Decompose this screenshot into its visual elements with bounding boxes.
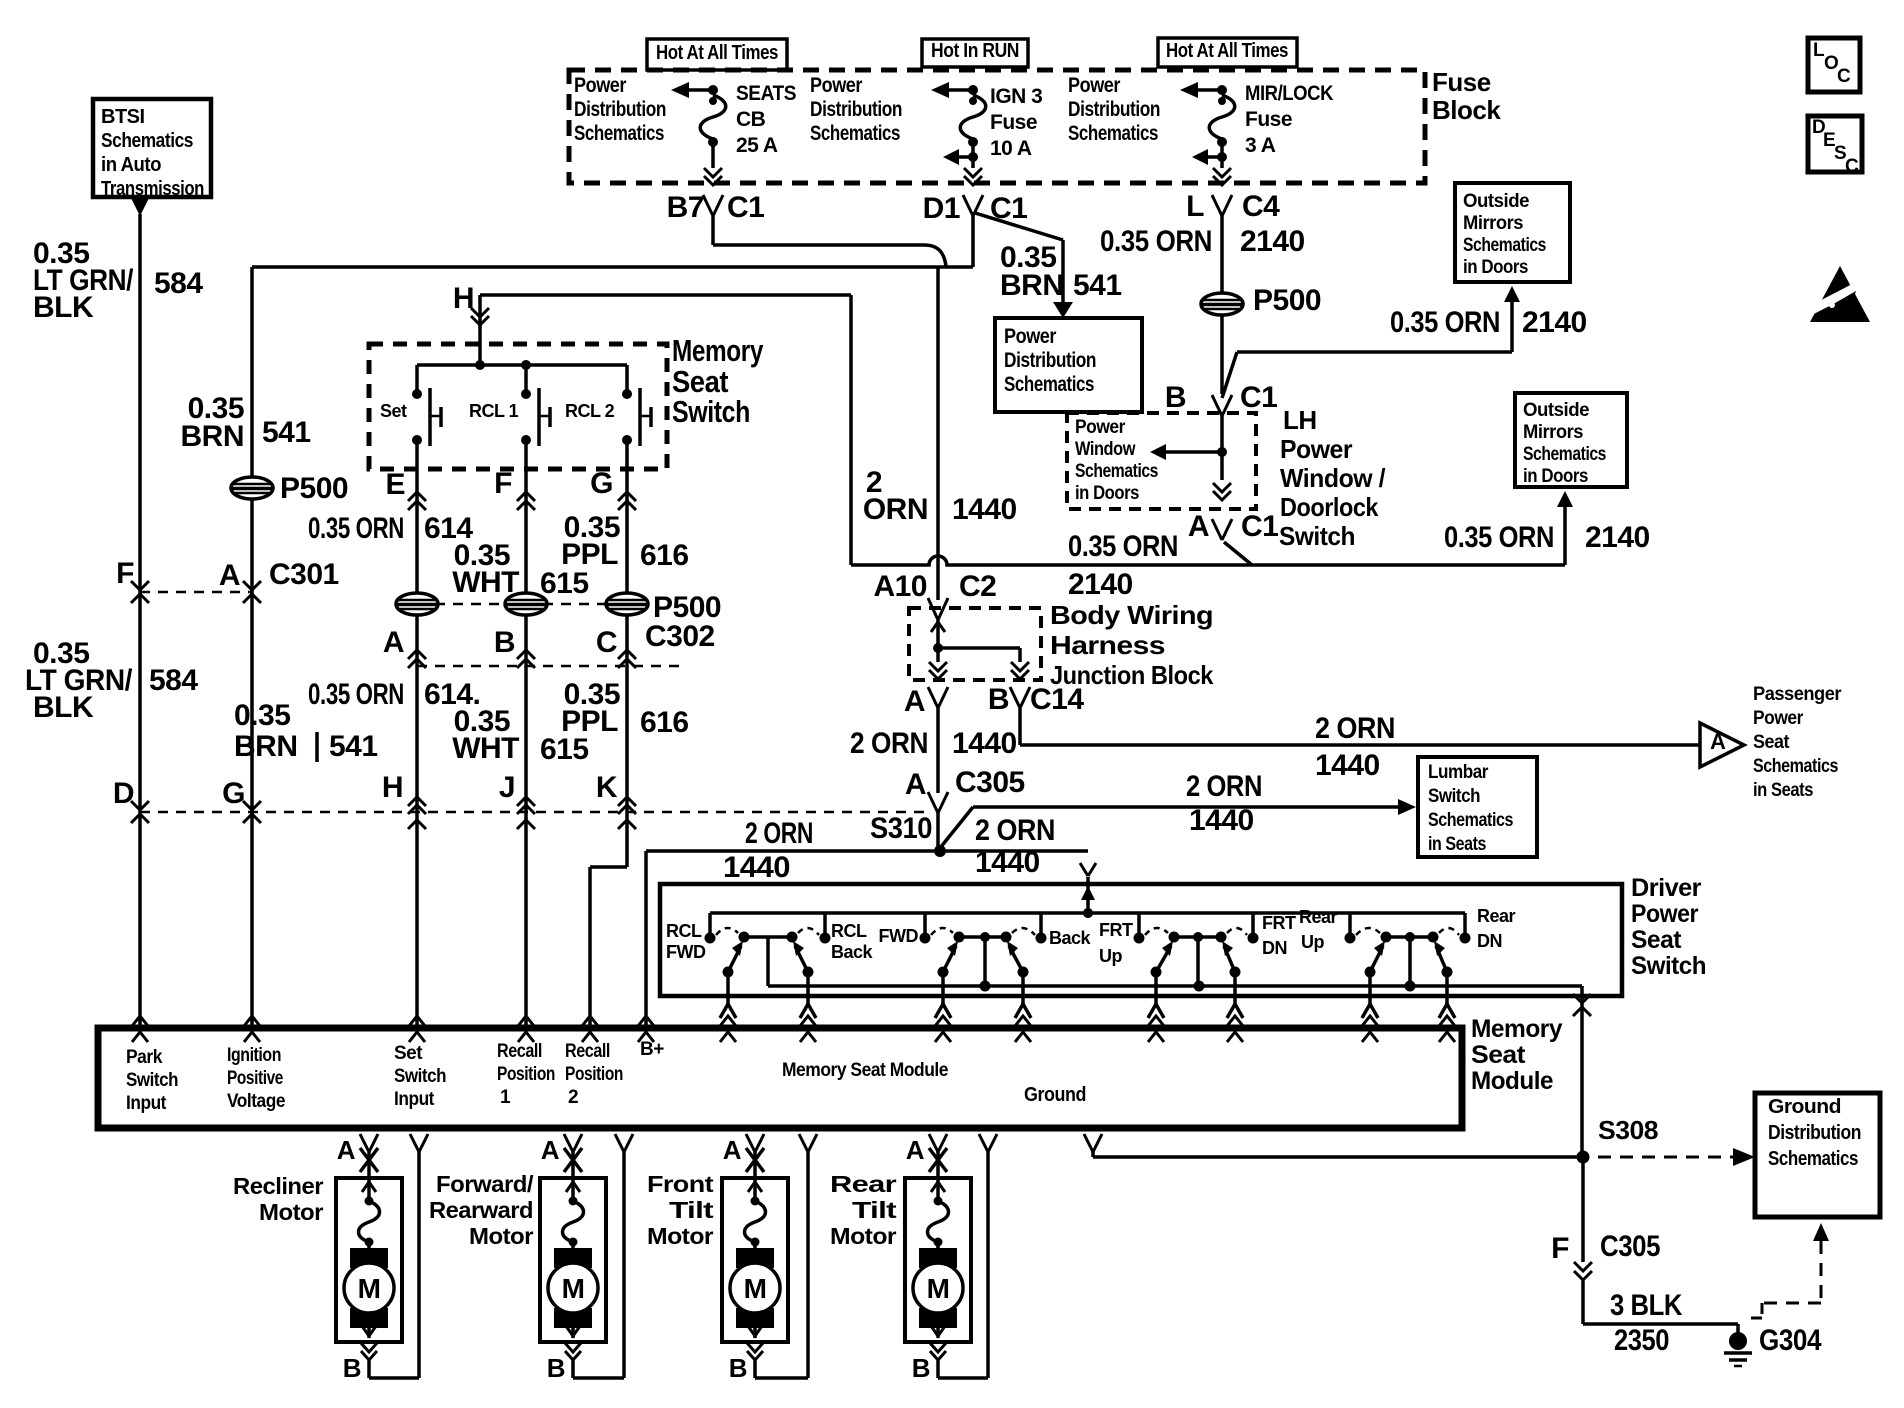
svg-text:G: G [222,777,245,810]
svg-text:J: J [499,771,515,804]
svg-text:in Doors: in Doors [1075,483,1139,504]
svg-text:A: A [1710,729,1726,754]
svg-text:ORN: ORN [863,493,928,526]
svg-text:Recall: Recall [565,1041,610,1062]
svg-text:2: 2 [568,1087,578,1108]
svg-text:E: E [385,468,405,501]
svg-text:A: A [337,1135,356,1165]
svg-text:Schematics: Schematics [1004,373,1094,396]
svg-text:Back: Back [831,942,874,962]
svg-text:A: A [219,559,240,592]
svg-text:2 ORN: 2 ORN [745,817,813,850]
svg-text:541: 541 [329,730,378,763]
svg-text:FRT: FRT [1262,913,1296,933]
svg-text:1440: 1440 [1315,749,1380,782]
svg-text:Outside: Outside [1523,400,1589,421]
svg-text:Mirrors: Mirrors [1463,213,1523,234]
svg-text:Motor: Motor [830,1223,897,1249]
svg-text:1440: 1440 [952,493,1017,526]
svg-text:A: A [383,626,404,659]
svg-text:Power: Power [1068,74,1120,97]
svg-text:Block: Block [1432,95,1501,125]
svg-text:2350: 2350 [1614,1324,1669,1357]
svg-text:in Doors: in Doors [1463,257,1528,278]
svg-text:Mirrors: Mirrors [1523,422,1583,443]
svg-text:Rear: Rear [830,1171,897,1197]
svg-text:C1: C1 [1240,381,1277,414]
svg-text:B: B [547,1353,565,1383]
svg-text:Position: Position [565,1064,623,1085]
svg-text:Power: Power [574,74,626,97]
svg-text:L: L [1186,190,1204,223]
svg-text:Memory: Memory [672,333,764,368]
svg-text:3 A: 3 A [1245,134,1276,157]
svg-text:1440: 1440 [723,851,790,884]
svg-text:Schematics: Schematics [574,122,664,145]
svg-text:C: C [1845,156,1859,177]
svg-text:K: K [596,771,618,804]
svg-text:F: F [116,557,134,590]
svg-text:Harness: Harness [1050,630,1165,660]
svg-text:C302: C302 [645,620,715,653]
svg-text:Schematics: Schematics [1428,810,1513,831]
svg-text:584: 584 [154,267,203,300]
svg-text:B: B [343,1353,361,1383]
svg-text:2 ORN: 2 ORN [850,727,928,760]
svg-text:B: B [988,683,1009,716]
svg-text:A: A [904,685,925,718]
svg-text:M: M [358,1273,381,1304]
svg-text:Schematics: Schematics [1068,122,1158,145]
svg-text:S310: S310 [870,812,932,845]
svg-text:0.35 ORN: 0.35 ORN [1068,530,1178,563]
svg-text:Tilt: Tilt [669,1197,714,1223]
svg-text:Back: Back [1049,928,1092,948]
svg-text:RCL: RCL [666,921,702,941]
svg-text:in Seats: in Seats [1753,780,1813,801]
svg-text:Positive: Positive [227,1068,283,1089]
svg-text:Schematics: Schematics [1463,235,1546,256]
svg-text:Tilt: Tilt [852,1197,897,1223]
svg-text:Distribution: Distribution [1768,1122,1861,1144]
svg-text:Power: Power [1753,708,1804,729]
svg-text:M: M [562,1273,585,1304]
svg-text:M: M [744,1273,767,1304]
svg-text:Power: Power [1631,900,1699,928]
svg-text:RCL: RCL [831,921,867,941]
svg-text:FWD: FWD [666,942,706,962]
svg-text:BRN: BRN [234,730,298,763]
svg-text:BLK: BLK [33,691,94,724]
svg-text:Outside: Outside [1463,191,1529,212]
svg-text:BRN: BRN [181,420,245,453]
svg-text:Switch: Switch [1428,786,1480,807]
svg-text:Switch: Switch [672,394,750,429]
svg-text:A: A [723,1135,742,1165]
svg-text:Rearward: Rearward [429,1197,533,1223]
svg-text:D1: D1 [923,192,960,225]
svg-text:DN: DN [1477,931,1502,951]
svg-text:Lumbar: Lumbar [1428,762,1489,783]
svg-text:0.35 ORN: 0.35 ORN [308,512,404,545]
svg-text:FWD: FWD [879,926,919,946]
svg-text:C1: C1 [727,191,764,224]
svg-text:Schematics: Schematics [810,122,900,145]
svg-text:Module: Module [1471,1067,1554,1095]
svg-text:D: D [113,777,134,810]
svg-text:Seat: Seat [1631,926,1682,954]
svg-text:Rear: Rear [1299,907,1338,927]
svg-text:616: 616 [640,706,689,739]
svg-text:C305: C305 [1600,1230,1660,1263]
svg-text:2 ORN: 2 ORN [975,814,1055,847]
svg-text:Up: Up [1099,946,1122,966]
svg-text:Hot At All Times: Hot At All Times [1166,40,1288,62]
svg-text:25 A: 25 A [736,134,778,157]
svg-text:2 ORN: 2 ORN [1315,712,1395,745]
svg-text:0.35 ORN: 0.35 ORN [308,678,404,711]
svg-text:in Seats: in Seats [1428,834,1486,855]
svg-text:C: C [596,626,617,659]
svg-text:Fuse: Fuse [1245,108,1292,131]
svg-text:B: B [912,1353,930,1383]
svg-text:Position: Position [497,1064,555,1085]
svg-text:2140: 2140 [1240,225,1305,258]
svg-text:Ignition: Ignition [227,1045,281,1066]
svg-text:Switch: Switch [126,1070,178,1091]
svg-text:FRT: FRT [1099,920,1133,940]
svg-text:C305: C305 [955,766,1025,799]
svg-text:H: H [453,282,474,315]
svg-text:Schematics: Schematics [101,130,193,152]
svg-text:541: 541 [262,416,311,449]
svg-text:Distribution: Distribution [1004,349,1096,372]
svg-text:Power: Power [810,74,862,97]
svg-text:RCL 1: RCL 1 [469,401,519,421]
svg-text:2140: 2140 [1585,521,1650,554]
svg-text:616: 616 [640,539,689,572]
svg-text:P500: P500 [1253,284,1321,317]
svg-text:Memory Seat Module: Memory Seat Module [782,1060,948,1081]
svg-text:Distribution: Distribution [1068,98,1160,121]
svg-text:0.35: 0.35 [234,699,290,732]
svg-text:A10: A10 [873,570,927,603]
svg-text:Voltage: Voltage [227,1091,285,1112]
svg-text:PPL: PPL [561,705,618,738]
svg-text:in Doors: in Doors [1523,466,1588,487]
svg-text:Input: Input [394,1089,435,1110]
svg-text:2140: 2140 [1522,306,1587,339]
svg-text:Fuse: Fuse [990,111,1037,134]
svg-text:G: G [590,467,613,500]
svg-text:B7: B7 [667,191,704,224]
svg-text:BLK: BLK [33,291,94,324]
svg-text:0.35 ORN: 0.35 ORN [1100,225,1212,258]
svg-text:0.35 ORN: 0.35 ORN [1444,521,1554,554]
svg-text:Motor: Motor [469,1223,534,1249]
svg-text:B: B [1165,381,1186,414]
svg-text:C301: C301 [269,558,339,591]
svg-text:Power: Power [1075,417,1126,438]
svg-text:Schematics: Schematics [1753,756,1838,777]
svg-text:C14: C14 [1030,683,1084,716]
svg-text:Switch: Switch [1631,952,1706,980]
svg-text:C2: C2 [959,570,996,603]
svg-text:PPL: PPL [561,538,618,571]
svg-text:Seat: Seat [1753,732,1790,753]
svg-text:Passenger: Passenger [1753,684,1842,705]
svg-text:Recall: Recall [497,1041,542,1062]
svg-text:LH: LH [1283,405,1317,435]
svg-text:C4: C4 [1242,190,1280,223]
svg-text:BTSI: BTSI [101,106,145,128]
svg-text:10 A: 10 A [990,137,1032,160]
svg-text:Hot At All Times: Hot At All Times [656,42,778,64]
svg-text:Ground: Ground [1768,1096,1841,1118]
svg-text:Power: Power [1280,434,1352,464]
svg-text:Power: Power [1004,325,1056,348]
svg-text:Park: Park [126,1047,163,1068]
svg-text:Input: Input [126,1093,167,1114]
svg-text:1440: 1440 [1189,804,1254,837]
svg-text:B: B [494,626,515,659]
svg-text:1: 1 [500,1087,511,1108]
svg-text:Up: Up [1301,932,1324,952]
svg-text:Window /: Window / [1280,463,1385,493]
svg-text:Memory: Memory [1471,1015,1563,1043]
svg-text:A: A [905,768,926,801]
svg-text:Motor: Motor [259,1199,324,1225]
svg-text:Rear: Rear [1477,906,1516,926]
svg-text:BRN: BRN [1000,269,1064,302]
svg-text:Transmission: Transmission [101,178,204,200]
svg-text:P500: P500 [280,472,348,505]
svg-text:C1: C1 [1241,510,1278,543]
svg-text:1440: 1440 [975,846,1040,879]
svg-text:MIR/LOCK: MIR/LOCK [1245,82,1333,105]
svg-text:WHT: WHT [452,566,519,599]
svg-text:Distribution: Distribution [810,98,902,121]
svg-text:G304: G304 [1759,1324,1822,1357]
svg-text:A: A [541,1135,560,1165]
svg-text:B: B [729,1353,747,1383]
svg-text:0.35 ORN: 0.35 ORN [1390,306,1500,339]
svg-text:B+: B+ [640,1039,664,1060]
svg-text:Doorlock: Doorlock [1280,492,1379,522]
svg-text:Switch: Switch [394,1066,446,1087]
svg-text:Schematics: Schematics [1523,444,1606,465]
svg-text:CB: CB [736,108,766,131]
svg-text:541: 541 [1073,269,1122,302]
svg-text:A: A [906,1135,925,1165]
svg-text:in Auto: in Auto [101,154,161,176]
svg-text:Schematics: Schematics [1768,1148,1858,1170]
svg-text:Set: Set [394,1043,423,1064]
svg-text:IGN 3: IGN 3 [990,85,1042,108]
svg-text:Recliner: Recliner [233,1173,324,1199]
svg-text:DN: DN [1262,938,1287,958]
svg-text:Window: Window [1075,439,1136,460]
svg-text:Motor: Motor [647,1223,714,1249]
svg-text:2 ORN: 2 ORN [1186,770,1262,803]
svg-text:Seat: Seat [1471,1041,1526,1069]
svg-text:Hot In RUN: Hot In RUN [931,40,1019,62]
svg-text:Driver: Driver [1631,874,1702,902]
svg-text:SEATS: SEATS [736,82,796,105]
svg-text:Forward/: Forward/ [436,1171,534,1197]
svg-text:WHT: WHT [452,732,519,765]
svg-text:Switch: Switch [1279,521,1355,551]
svg-text:Distribution: Distribution [574,98,666,121]
svg-text:2140: 2140 [1068,568,1133,601]
svg-text:1440: 1440 [952,727,1017,760]
svg-text:S308: S308 [1598,1115,1658,1145]
svg-text:Ground: Ground [1024,1084,1086,1106]
svg-text:3 BLK: 3 BLK [1610,1289,1683,1322]
svg-text:A: A [1188,510,1209,543]
svg-text:584: 584 [149,664,198,697]
svg-text:RCL 2: RCL 2 [565,401,615,421]
svg-text:C: C [1837,66,1851,87]
svg-text:Front: Front [647,1171,714,1197]
svg-text:Schematics: Schematics [1075,461,1158,482]
svg-text:615: 615 [540,567,589,600]
svg-text:H: H [382,771,403,804]
svg-text:F: F [494,467,512,500]
svg-text:Body Wiring: Body Wiring [1050,600,1213,630]
svg-text:M: M [927,1273,950,1304]
svg-text:Fuse: Fuse [1432,67,1491,97]
svg-text:Set: Set [380,401,407,421]
svg-text:F: F [1551,1232,1569,1265]
